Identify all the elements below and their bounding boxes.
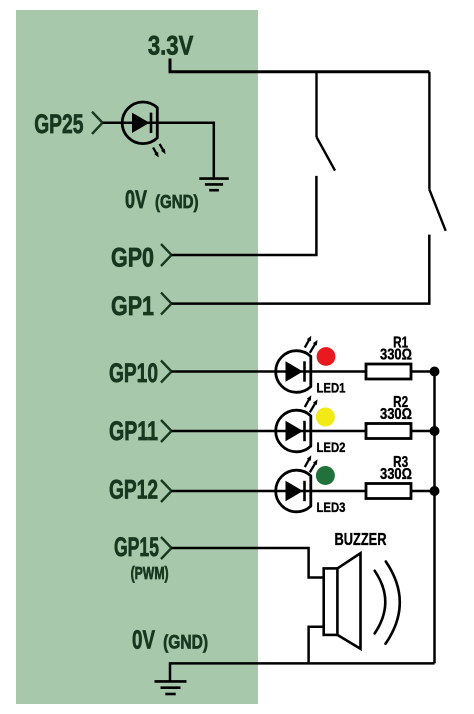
wire GP1 to switch SW2 (172, 235, 430, 304)
resistor R2 (366, 394, 412, 439)
LED D1 onboard (122, 102, 165, 158)
label 0V (GND) top (125, 186, 199, 214)
svg-text:330Ω: 330Ω (380, 347, 412, 364)
wire GP10 to R1 (172, 370, 367, 373)
svg-text:GP25: GP25 (34, 109, 83, 139)
pin GP10 connector (161, 361, 172, 383)
pin GP0 connector (161, 244, 172, 266)
wire 3.3V rail (170, 59, 429, 72)
wire SW2 upper terminal (428, 72, 430, 190)
resistor R3 (366, 454, 412, 499)
wire bottom ground rail (170, 663, 435, 680)
wire R1 to rail (411, 370, 435, 373)
wire R2 to rail (411, 430, 435, 433)
svg-text:(GND): (GND) (155, 191, 199, 212)
LED3 green (276, 455, 346, 515)
junction node at R2 (430, 426, 440, 436)
svg-text:(PWM): (PWM) (131, 563, 169, 583)
wire buzzer to ground (309, 627, 324, 664)
pin GP15 connector (161, 537, 172, 559)
svg-text:GP10: GP10 (109, 358, 158, 388)
wire GP12 to R3 (172, 490, 367, 493)
switch SW2 lever (429, 190, 445, 231)
svg-text:0V: 0V (125, 186, 147, 214)
wire SW1 upper terminal (315, 72, 317, 137)
svg-text:GP1: GP1 (111, 291, 154, 321)
wire R3 to rail (411, 490, 435, 493)
buzzer LS1 (324, 529, 400, 649)
wire GP25 to ground (103, 123, 214, 178)
wire GP11 to R2 (172, 430, 367, 433)
svg-text:BUZZER: BUZZER (335, 529, 387, 549)
svg-text:3.3V: 3.3V (148, 31, 194, 61)
switch SW1 lever (317, 137, 336, 171)
pin GP12 connector (161, 480, 172, 502)
svg-text:0V: 0V (132, 625, 155, 655)
pin GP1 connector (161, 293, 172, 315)
junction node at R1 (430, 367, 440, 377)
svg-text:GP0: GP0 (111, 243, 154, 273)
wire GP15 to buzzer (172, 548, 324, 578)
ground (GP25 LED) (199, 179, 229, 191)
svg-text:GP15: GP15 (114, 532, 159, 562)
wire right rail (433, 372, 436, 664)
svg-text:(GND): (GND) (163, 633, 208, 654)
svg-text:GP11: GP11 (109, 416, 158, 446)
LED1 red (276, 336, 346, 396)
wire GP0 to switch SW1 (172, 176, 317, 255)
label 0V (GND) bottom (132, 625, 208, 655)
pin GP11 connector (161, 420, 172, 442)
svg-text:LED3: LED3 (317, 500, 346, 515)
svg-text:LED1: LED1 (317, 381, 346, 396)
resistor R1 (366, 335, 412, 380)
svg-text:GP12: GP12 (109, 475, 158, 505)
LED2 yellow (276, 395, 346, 455)
junction node at R3 (430, 486, 440, 496)
pin GP25 connector (92, 112, 103, 134)
board panel (Pico GPIO area) (16, 10, 258, 704)
ground (bottom) (155, 681, 187, 694)
svg-text:330Ω: 330Ω (380, 406, 412, 423)
svg-text:330Ω: 330Ω (380, 466, 412, 483)
svg-text:LED2: LED2 (317, 440, 346, 455)
